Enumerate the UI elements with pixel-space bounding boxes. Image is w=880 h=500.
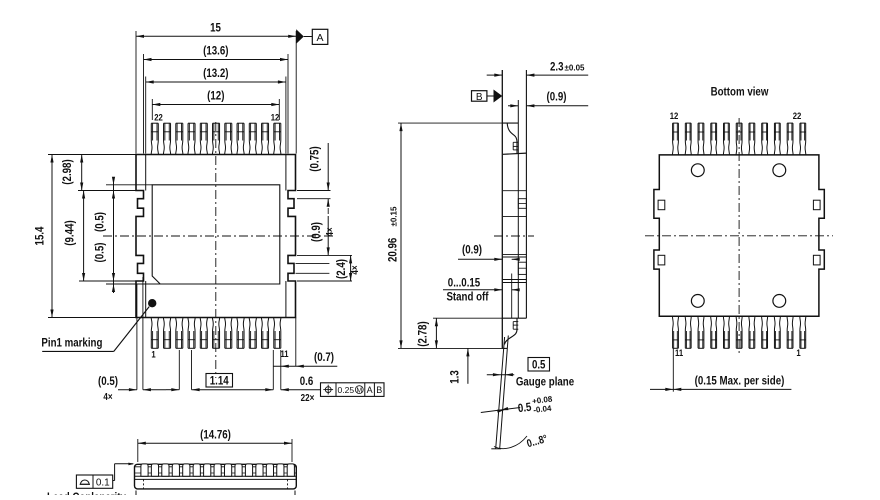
svg-text:20.96: 20.96 [386,237,400,262]
svg-text:(0.75): (0.75) [308,146,322,171]
svg-text:15.4: 15.4 [33,226,47,245]
svg-text:0.5: 0.5 [532,357,546,371]
svg-text:A: A [316,32,323,44]
svg-text:(0.9): (0.9) [309,222,323,242]
svg-text:Stand off: Stand off [446,290,489,304]
svg-text:11: 11 [675,348,684,359]
svg-text:(13.2): (13.2) [203,66,228,80]
svg-text:A: A [367,385,373,395]
svg-text:(0.9): (0.9) [547,90,567,104]
svg-text:Bottom view: Bottom view [711,85,769,99]
svg-text:0.25: 0.25 [338,385,355,395]
svg-text:(2.4): (2.4) [334,259,348,279]
svg-text:1.14: 1.14 [210,373,229,387]
svg-text:11: 11 [280,349,289,360]
svg-text:(0.9): (0.9) [462,243,482,257]
svg-text:1: 1 [151,350,156,361]
svg-text:Pin1 marking: Pin1 marking [41,336,102,350]
svg-text:12: 12 [670,111,679,122]
svg-text:0...0.15: 0...0.15 [448,276,481,290]
svg-text:2.3: 2.3 [550,60,564,74]
svg-text:(0.7): (0.7) [314,350,334,364]
svg-text:15: 15 [210,21,221,35]
svg-text:(0.5): (0.5) [93,243,107,263]
svg-text:(13.6): (13.6) [203,44,228,58]
svg-text:(0.5): (0.5) [93,212,107,232]
svg-text:(14.76): (14.76) [200,428,231,442]
svg-text:(9.44): (9.44) [62,220,76,245]
svg-text:(0.5): (0.5) [98,374,118,388]
svg-text:22: 22 [154,113,163,124]
svg-text:4×: 4× [350,265,361,274]
svg-text:(2.78): (2.78) [416,321,430,346]
svg-text:1: 1 [796,348,801,359]
svg-text:(12): (12) [207,89,224,103]
svg-text:Gauge plane: Gauge plane [516,375,575,389]
svg-text:±0.15: ±0.15 [390,206,399,227]
svg-text:0.6: 0.6 [300,374,314,388]
svg-text:12: 12 [271,113,280,124]
svg-text:(2.98): (2.98) [60,159,74,184]
svg-text:B: B [476,92,483,103]
svg-text:4×: 4× [103,392,112,403]
svg-text:22: 22 [793,111,802,122]
svg-text:B: B [376,385,382,395]
svg-text:0.1: 0.1 [96,477,110,488]
svg-text:M: M [356,387,362,394]
svg-text:1.3: 1.3 [448,370,462,384]
svg-text:4×: 4× [325,227,336,236]
svg-text:22×: 22× [301,393,315,404]
svg-text:(0.15 Max. per side): (0.15 Max. per side) [695,374,785,388]
svg-text:Lead Coplanarity: Lead Coplanarity [47,490,126,495]
svg-text:±0.05: ±0.05 [565,64,586,73]
